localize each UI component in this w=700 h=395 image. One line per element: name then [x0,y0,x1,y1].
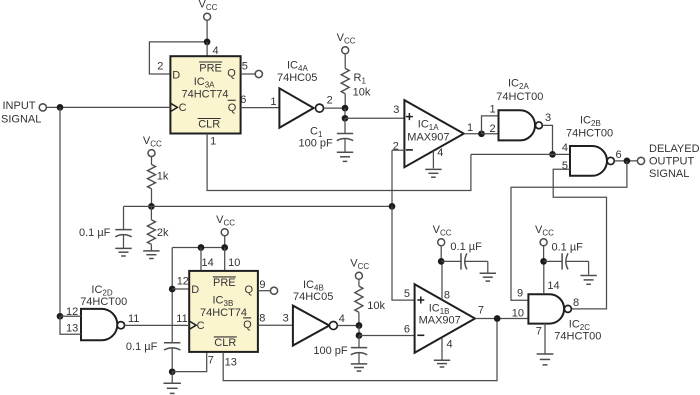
inverter IC4A 74HC05 [277,59,324,127]
ground IC2C [537,354,554,365]
wire Q pin9 [258,279,271,291]
wire IC2B output [614,160,637,162]
svg-text:1: 1 [270,96,276,108]
gate IC2B 74HCT00 [562,114,622,175]
svg-text:Q: Q [243,319,252,331]
ground C1 [337,152,353,161]
power VCC (IC3A PRE/D) [199,0,218,42]
svg-text:Q: Q [228,102,237,114]
wire IC1B output [475,305,528,320]
power VCC (IC3B) [216,214,235,248]
svg-text:3: 3 [545,112,551,124]
ground 100pF bottom [351,364,367,371]
wire IC1B pin8 [442,261,450,301]
svg-text:14: 14 [547,280,559,292]
svg-text:5: 5 [562,160,568,172]
svg-text:14: 14 [202,257,214,269]
svg-text:3: 3 [393,104,399,116]
svg-text:CLR: CLR [198,119,220,131]
svg-text:4: 4 [339,313,345,325]
wire IC1B pin4 [442,338,453,360]
node set junction [549,151,556,158]
svg-text:11: 11 [128,313,139,325]
svg-text:12: 12 [177,276,189,288]
node VCC pin14 junction [198,244,205,251]
capacitor 0.1 uF IC2C [544,242,589,275]
inverter IC4B 74HC05 [293,279,338,346]
power VCC (IC1B) [433,224,452,261]
resistor 2k [147,206,169,244]
svg-text:D: D [191,284,199,296]
capacitor 100 pF bottom [313,336,367,364]
svg-text:2: 2 [490,123,496,135]
svg-text:MAX907: MAX907 [419,314,461,326]
resistor 1k [148,165,169,189]
wire input down to IC2D [59,107,61,316]
svg-text:Q: Q [245,284,254,296]
wire to IC1B minus [359,323,415,335]
wire divider line [124,205,393,207]
node output junction [624,158,631,165]
svg-text:3: 3 [283,313,289,325]
svg-text:7: 7 [208,354,214,366]
svg-text:PRE: PRE [213,277,236,289]
svg-text:7: 7 [478,305,484,317]
DELAYED OUTPUT SIGNAL label [649,143,700,180]
svg-text:1: 1 [210,136,216,148]
svg-text:13: 13 [66,322,78,334]
svg-text:13: 13 [225,357,237,369]
wire pin14 stub [201,248,214,271]
ground 2k [143,251,159,259]
power VCC (1k) [143,135,162,165]
wire IC2C pin14 [543,261,545,294]
wire set line [471,153,570,155]
comparator IC1A MAX907 [404,100,463,167]
svg-text:74HCT74: 74HCT74 [181,88,228,100]
node IC2D input junction [57,313,64,320]
wire pin10 stub [225,248,241,271]
gate IC2A 74HCT00 [490,78,552,141]
svg-text:6: 6 [404,323,410,335]
node input junction [57,104,64,111]
svg-text:2: 2 [157,61,163,73]
wire IC4B output [337,313,359,326]
svg-text:74HCT00: 74HCT00 [80,296,127,308]
gate IC2C 74HCT00 [517,280,601,342]
node R1-IC4A junction [342,105,349,112]
svg-text:6: 6 [240,94,246,106]
svg-text:0.1 µF: 0.1 µF [450,241,482,253]
capacitor 0.1 uF IC3B [126,341,180,372]
ground IC1B cap [480,273,496,281]
svg-text:11: 11 [176,313,187,325]
node gnd junction IC3B [169,368,176,375]
node divider junction [148,203,155,210]
svg-text:INPUT: INPUT [3,100,36,112]
wire 1k bottom [151,189,153,207]
wire IC2C out to IC2B pin5 [553,169,606,309]
wire divider to IC1B plus [392,206,415,300]
svg-text:4: 4 [562,142,568,154]
ground divider cap [115,248,131,256]
wire IC3B Qbar to IC4B [258,313,293,326]
svg-text:C: C [179,102,187,114]
svg-text:74HCT74: 74HCT74 [200,307,247,319]
svg-text:8: 8 [573,297,579,309]
svg-text:9: 9 [517,287,523,299]
node IC1A out junction [478,130,485,137]
node C1 junction [342,115,349,122]
wire to IC1A plus input [345,104,404,118]
wire IC4A output [324,95,346,108]
svg-text:SIGNAL: SIGNAL [1,113,41,125]
svg-text:8: 8 [259,313,265,325]
terminal Q pin5 open [255,70,262,77]
wire IC1A minus input [392,140,404,206]
wire R1 bottom [344,94,346,108]
node IC2C vcc junction [540,258,547,265]
capacitor 0.1 uF IC1B [441,241,488,273]
svg-text:74HC05: 74HC05 [293,291,333,303]
flip-flop IC3B 74HCT74 [189,271,258,352]
wire 10k bottom stub [358,312,360,325]
wire IC2A input loop [482,116,499,134]
node divider-IC1 junction [389,203,396,210]
wire feedback to IC2C pin9 [511,161,627,300]
svg-text:SIGNAL: SIGNAL [649,168,689,180]
svg-text:0.1 µF: 0.1 µF [552,242,584,254]
input terminal [39,104,46,111]
svg-text:0.1 µF: 0.1 µF [126,341,158,353]
svg-text:10k: 10k [353,86,371,98]
svg-text:CLR: CLR [214,337,236,349]
svg-text:10: 10 [228,257,240,269]
svg-text:9: 9 [259,279,265,291]
wire IC3B CLR pin13 net [223,319,497,381]
resistor R1 10k [341,68,371,98]
wire junction vertical [344,108,346,118]
svg-text:74HCT00: 74HCT00 [554,331,601,343]
terminal Q pin9 open [270,287,277,294]
wire input to IC3A clock [46,106,170,108]
ground IC2C cap [580,276,596,285]
wire IC2D pin13 [60,316,81,334]
svg-text:5: 5 [404,288,410,300]
power VCC (IC2C) [535,224,554,261]
delayed output terminal [637,157,644,164]
node 100pF junction [356,332,363,339]
svg-text:1: 1 [467,122,473,134]
ground IC3B cap [164,372,181,394]
svg-text:4: 4 [447,338,453,350]
wire IC2C pin7 [544,323,546,354]
svg-text:2k: 2k [157,227,169,239]
wire VCC rail IC3B [172,247,225,249]
svg-text:100 pF: 100 pF [313,345,348,357]
svg-text:4: 4 [213,45,219,57]
wire VCC to IC3B D [172,248,189,343]
svg-text:100 pF: 100 pF [299,137,334,149]
resistor 10k bottom [355,286,386,312]
node D junction [169,286,176,293]
pin 5 label [404,288,410,300]
svg-text:C: C [197,320,205,332]
INPUT SIGNAL label [1,100,41,126]
svg-text:0.1 µF: 0.1 µF [79,227,111,239]
svg-text:PRE: PRE [199,62,222,74]
svg-text:4: 4 [437,147,443,159]
wire Q pin 5 [241,60,256,74]
wire junction vertical 2 [358,326,360,336]
wire IC3A CLR pin1 net [207,134,471,191]
svg-text:10: 10 [512,308,524,320]
wire D stub [172,288,189,290]
ground IC1A [425,169,441,177]
svg-text:8: 8 [444,290,450,302]
svg-text:MAX907: MAX907 [407,131,449,143]
svg-text:74HC05: 74HC05 [277,72,317,84]
capacitor C1 100 pF [299,118,354,152]
wire D-to-VCC loop [149,42,207,74]
power VCC (10k) [350,258,369,287]
wire Q-bar pin6 to IC4A [240,94,279,108]
ground IC1B [434,360,450,367]
flip-flop IC3A 74HCT74 [170,56,240,133]
svg-text:74HCT00: 74HCT00 [566,128,613,140]
svg-text:1: 1 [490,104,496,116]
node VCC pin10 junction [221,244,228,251]
wire IC2D pin12 [60,315,81,317]
svg-text:2: 2 [327,95,333,107]
wire IC2A output [542,125,552,154]
node 10k-IC4B junction [356,322,363,329]
svg-text:5: 5 [242,60,248,72]
power VCC (R1) [337,32,356,68]
gate IC2D 74HCT00 [66,284,127,340]
svg-text:1k: 1k [157,171,169,183]
svg-text:74HCT00: 74HCT00 [496,91,543,103]
comparator IC1B MAX907 [415,284,475,353]
svg-text:7: 7 [536,325,542,337]
svg-text:DELAYED: DELAYED [649,143,700,155]
svg-text:6: 6 [616,149,622,161]
svg-text:2: 2 [393,140,399,152]
svg-text:10k: 10k [367,300,385,312]
wire PRE pin 4 stub [207,42,219,57]
svg-text:Q: Q [227,67,236,79]
node IC1B vcc junction [438,258,445,265]
node VCC-PRE junction [204,39,211,46]
svg-text:OUTPUT: OUTPUT [649,155,695,167]
svg-text:D: D [172,69,180,81]
wire 2k bottom [150,244,152,251]
node IC1B out junction [494,315,501,322]
wire IC1A pin4 [433,147,443,168]
wire IC3B pin7 [172,352,214,372]
wire IC2D out to IC3B clock [125,313,190,326]
capacitor 0.1 uF divider [79,206,132,248]
wire IC1A output [464,122,482,134]
pin 2 label (D) [157,61,163,73]
